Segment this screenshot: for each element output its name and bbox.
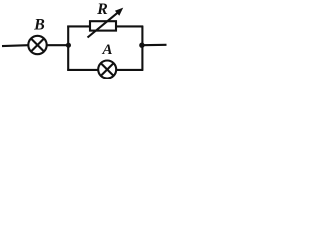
resistor R arrow shaft — [88, 11, 120, 37]
lamp B circle — [28, 36, 46, 54]
wire top branch left — [67, 25, 90, 27]
wire output right — [142, 44, 167, 47]
node left junction — [66, 43, 71, 48]
lamp A X diagonal 2 — [101, 63, 114, 76]
resistor R body — [90, 21, 116, 30]
lamp B X diagonal 1 — [31, 39, 44, 52]
lamp A X diagonal 1 — [101, 63, 114, 76]
wire lamp B to left node — [47, 44, 69, 46]
svg-text:R: R — [96, 1, 108, 18]
resistor R arrowhead — [115, 8, 123, 16]
wire right vertical bar — [141, 26, 143, 71]
wire left vertical bar — [67, 26, 69, 71]
wire bottom branch left — [67, 69, 98, 71]
svg-text:B: B — [33, 17, 45, 34]
svg-text:A: A — [101, 42, 112, 58]
wire left input — [2, 44, 28, 47]
node right junction — [139, 43, 144, 48]
lamp B X diagonal 2 — [31, 39, 44, 52]
lamp A circle — [98, 61, 116, 79]
wire bottom branch right — [116, 69, 143, 71]
wire top branch right — [116, 25, 143, 27]
